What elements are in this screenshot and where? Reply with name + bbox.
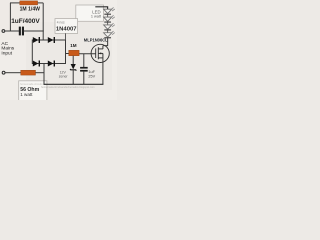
svg-text:Input: Input xyxy=(1,50,12,56)
wire gate xyxy=(79,53,96,55)
resistor R2 56 Ohm 1 watt xyxy=(21,70,36,75)
bridge bottom wire xyxy=(32,63,65,65)
mosfet Q1 MLP1N06CL xyxy=(91,44,109,62)
resistor R3 1M gate xyxy=(69,50,79,55)
wire cap2 top xyxy=(83,54,85,67)
callout box 56 Ohm 1 watt xyxy=(19,81,47,102)
diode D4 xyxy=(48,61,55,67)
LED4 xyxy=(104,33,112,37)
zener diode 12V xyxy=(70,64,76,71)
svg-text:1N4007: 1N4007 xyxy=(56,27,77,33)
capacitor C1 1uF/400V xyxy=(19,27,24,36)
wire zener bottom xyxy=(72,70,74,85)
AC terminal 1 xyxy=(2,30,5,33)
wire cap2 bottom xyxy=(83,72,85,85)
wire 1M top right stub xyxy=(38,2,44,4)
wire 1M top left stub xyxy=(10,2,20,4)
wire callout pointer to bridge xyxy=(65,33,67,40)
bottom rail xyxy=(44,83,104,85)
callout box LED 1 watt xyxy=(76,5,104,21)
LED2 xyxy=(104,17,112,21)
label 1uF 25V xyxy=(88,70,95,78)
label AC Mains Input xyxy=(1,41,14,57)
LED3 xyxy=(104,25,112,29)
diode D1 xyxy=(33,37,40,43)
LED1 xyxy=(104,9,112,13)
svg-text:25V: 25V xyxy=(88,75,95,79)
svg-text:1 watt: 1 watt xyxy=(20,92,33,97)
wire terminal1 to capacitor xyxy=(5,30,19,32)
wire drain xyxy=(102,46,104,49)
wire capacitor to bridge junction xyxy=(24,30,44,32)
wire LED feed top xyxy=(95,7,107,10)
connector xyxy=(107,14,109,17)
bridge left edge xyxy=(31,40,33,65)
background xyxy=(0,0,117,100)
svg-text:1 watt: 1 watt xyxy=(91,15,102,19)
bridge top wire xyxy=(32,39,65,41)
wire 56 ohm to bridge drop xyxy=(36,72,45,74)
wire zener top xyxy=(72,56,74,65)
AC terminal 2 xyxy=(2,71,5,74)
wire LED bottom to drain xyxy=(103,38,108,46)
svg-text:zener: zener xyxy=(59,75,69,79)
svg-text:MLP1N06CL: MLP1N06CL xyxy=(84,38,108,43)
wire 1M left riser xyxy=(9,3,11,32)
capacitor C2 1uF 25V xyxy=(80,67,88,72)
wire AC2 riser bridge to rail xyxy=(43,64,45,85)
callout box 4 nos 1N4007 xyxy=(55,19,78,34)
label 12V zener xyxy=(59,70,69,78)
resistor R1 1M 1/4W xyxy=(20,1,38,5)
svg-text:1uF/400V: 1uF/400V xyxy=(11,18,40,25)
svg-text:1M: 1M xyxy=(70,43,77,48)
svg-text:homemadecircuitsandschematics.: homemadecircuitsandschematics.blogspot.c… xyxy=(41,85,95,89)
svg-text:4 nos: 4 nos xyxy=(57,20,65,24)
diode D3 xyxy=(33,61,40,67)
wire source to rail xyxy=(102,53,104,84)
wire bridge+ to gate resistor xyxy=(66,53,69,55)
wire terminal2 to 56 ohm xyxy=(5,72,21,74)
svg-text:1M 1/4W: 1M 1/4W xyxy=(20,7,41,13)
wire 1M right riser / AC1 drop to bridge xyxy=(42,3,44,40)
LED string D5-D8 xyxy=(104,8,115,38)
diode D2 xyxy=(48,37,55,43)
bridge right edge xyxy=(65,40,67,65)
svg-text:1uF: 1uF xyxy=(88,70,95,74)
